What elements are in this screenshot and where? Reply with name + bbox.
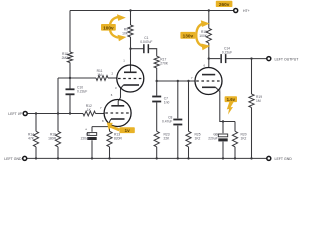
svg-text:130v: 130v <box>183 33 194 38</box>
svg-text:270K: 270K <box>160 61 169 65</box>
svg-text:0.22uF: 0.22uF <box>77 90 87 94</box>
svg-text:+: + <box>85 128 87 132</box>
svg-text:1M: 1M <box>97 73 102 77</box>
svg-text:LEFT OUTPUT: LEFT OUTPUT <box>275 57 300 61</box>
svg-text:220uF: 220uF <box>208 137 217 141</box>
svg-text:1K2: 1K2 <box>241 136 247 140</box>
svg-text:+: + <box>214 133 216 137</box>
svg-text:820R: 820R <box>114 136 123 140</box>
svg-text:260v: 260v <box>219 2 230 7</box>
svg-text:1n0: 1n0 <box>164 100 170 104</box>
svg-text:1K2: 1K2 <box>195 136 201 140</box>
svg-text:10K: 10K <box>122 31 129 35</box>
svg-text:LEFT I/P: LEFT I/P <box>8 112 22 116</box>
svg-text:180R: 180R <box>48 136 57 140</box>
svg-text:0.47uF: 0.47uF <box>162 119 172 123</box>
svg-text:HT+: HT+ <box>243 9 250 13</box>
svg-text:0.22uF: 0.22uF <box>222 50 232 54</box>
svg-text:2M2: 2M2 <box>62 56 69 60</box>
svg-text:LEFT GND: LEFT GND <box>4 157 22 161</box>
svg-text:100K: 100K <box>199 34 208 38</box>
svg-text:220uF: 220uF <box>81 137 90 141</box>
svg-text:1M: 1M <box>256 99 261 103</box>
svg-text:LEFT GND: LEFT GND <box>275 157 293 161</box>
svg-text:0.047uF: 0.047uF <box>140 40 152 44</box>
svg-text:100v: 100v <box>103 25 114 30</box>
svg-text:22K: 22K <box>164 136 171 140</box>
svg-text:1.6v: 1.6v <box>227 97 236 102</box>
svg-text:47K: 47K <box>28 136 35 140</box>
svg-text:1v: 1v <box>124 128 130 133</box>
